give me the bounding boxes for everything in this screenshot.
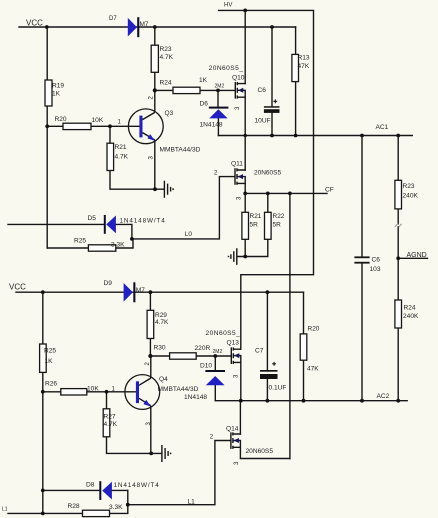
svg-text:103: 103	[370, 266, 381, 273]
svg-text:R26: R26	[45, 381, 57, 388]
svg-text:D9: D9	[104, 280, 113, 287]
svg-text:D8: D8	[86, 482, 95, 489]
svg-text:R29: R29	[155, 312, 167, 319]
svg-text:C6: C6	[258, 87, 267, 94]
svg-text:20N60S5: 20N60S5	[254, 169, 281, 176]
svg-text:R30: R30	[154, 345, 166, 352]
svg-text:4.7K: 4.7K	[155, 319, 169, 326]
svg-text:10K: 10K	[87, 386, 99, 393]
svg-text:D5: D5	[88, 215, 97, 222]
svg-text:C7: C7	[255, 348, 264, 355]
svg-text:47K: 47K	[298, 63, 310, 70]
svg-text:20N60S5_: 20N60S5_	[209, 65, 244, 72]
svg-text:R25: R25	[44, 348, 56, 355]
svg-text:MMBTA44/3D: MMBTA44/3D	[158, 386, 199, 393]
svg-text:R22: R22	[273, 213, 285, 220]
svg-text:R27: R27	[104, 413, 116, 420]
svg-text:L1: L1	[188, 499, 196, 506]
svg-text:1N4148: 1N4148	[184, 394, 207, 401]
svg-text:R21: R21	[250, 213, 262, 220]
svg-text:1K: 1K	[45, 358, 54, 365]
svg-text:0.1UF: 0.1UF	[269, 384, 287, 391]
svg-text:R23: R23	[160, 46, 172, 53]
svg-text:240K: 240K	[403, 313, 419, 320]
svg-text:R24: R24	[160, 80, 172, 87]
svg-text:Q10: Q10	[232, 75, 245, 82]
svg-text:1N4148: 1N4148	[200, 122, 223, 129]
svg-text:R21: R21	[115, 144, 127, 151]
svg-text:AC1: AC1	[376, 124, 389, 131]
svg-text:4.7K: 4.7K	[115, 154, 129, 161]
svg-text:1K: 1K	[199, 77, 208, 84]
svg-text:R19: R19	[52, 83, 64, 90]
svg-text:1N4148W/T4: 1N4148W/T4	[120, 218, 166, 225]
svg-text:VCC: VCC	[26, 19, 43, 28]
svg-text:4.7K: 4.7K	[104, 421, 118, 428]
svg-text:20N60S5_: 20N60S5_	[206, 330, 241, 337]
svg-text:R24: R24	[404, 305, 416, 312]
svg-text:AGND: AGND	[407, 252, 427, 259]
svg-text:220R: 220R	[195, 345, 211, 352]
svg-text:M7: M7	[140, 21, 149, 28]
svg-text:L1: L1	[2, 507, 8, 513]
svg-text:240K: 240K	[403, 193, 419, 200]
svg-text:L0: L0	[185, 231, 193, 238]
svg-text:M7: M7	[136, 287, 145, 294]
svg-text:Q13: Q13	[227, 340, 240, 347]
svg-text:10K: 10K	[92, 117, 104, 124]
svg-text:CF: CF	[325, 187, 334, 194]
svg-text:1N4148W/T4: 1N4148W/T4	[114, 482, 160, 489]
svg-text:VCC: VCC	[9, 283, 26, 292]
svg-text:R20: R20	[55, 116, 67, 123]
svg-text:2M2: 2M2	[213, 349, 223, 355]
svg-text:20N60S5: 20N60S5	[246, 448, 274, 455]
svg-text:10UF: 10UF	[255, 118, 271, 125]
svg-text:47K: 47K	[307, 365, 319, 372]
svg-text:1K: 1K	[52, 91, 61, 98]
svg-text:R20: R20	[308, 325, 320, 332]
svg-text:D7: D7	[109, 16, 117, 22]
svg-text:Q11: Q11	[231, 161, 243, 168]
svg-text:5R: 5R	[250, 222, 259, 229]
svg-text:R28: R28	[68, 503, 80, 510]
svg-text:Q14: Q14	[226, 426, 239, 433]
svg-text:4.7K: 4.7K	[160, 54, 174, 61]
svg-text:2M2: 2M2	[215, 84, 225, 90]
svg-text:R25: R25	[74, 238, 86, 245]
svg-text:AC2: AC2	[377, 393, 390, 400]
svg-text:D6: D6	[200, 101, 209, 108]
svg-text:MMBTA44/3D: MMBTA44/3D	[160, 147, 201, 154]
svg-text:3.3K: 3.3K	[109, 504, 123, 511]
svg-text:5R: 5R	[273, 222, 282, 229]
svg-text:R23: R23	[403, 183, 415, 190]
svg-text:HV: HV	[224, 3, 232, 9]
svg-text:Q3: Q3	[165, 110, 174, 117]
svg-text:3.3K: 3.3K	[111, 242, 125, 249]
svg-text:C6: C6	[372, 257, 381, 264]
svg-text:Q4: Q4	[159, 376, 168, 383]
svg-text:D10: D10	[200, 363, 212, 370]
svg-text:R13: R13	[298, 55, 310, 62]
